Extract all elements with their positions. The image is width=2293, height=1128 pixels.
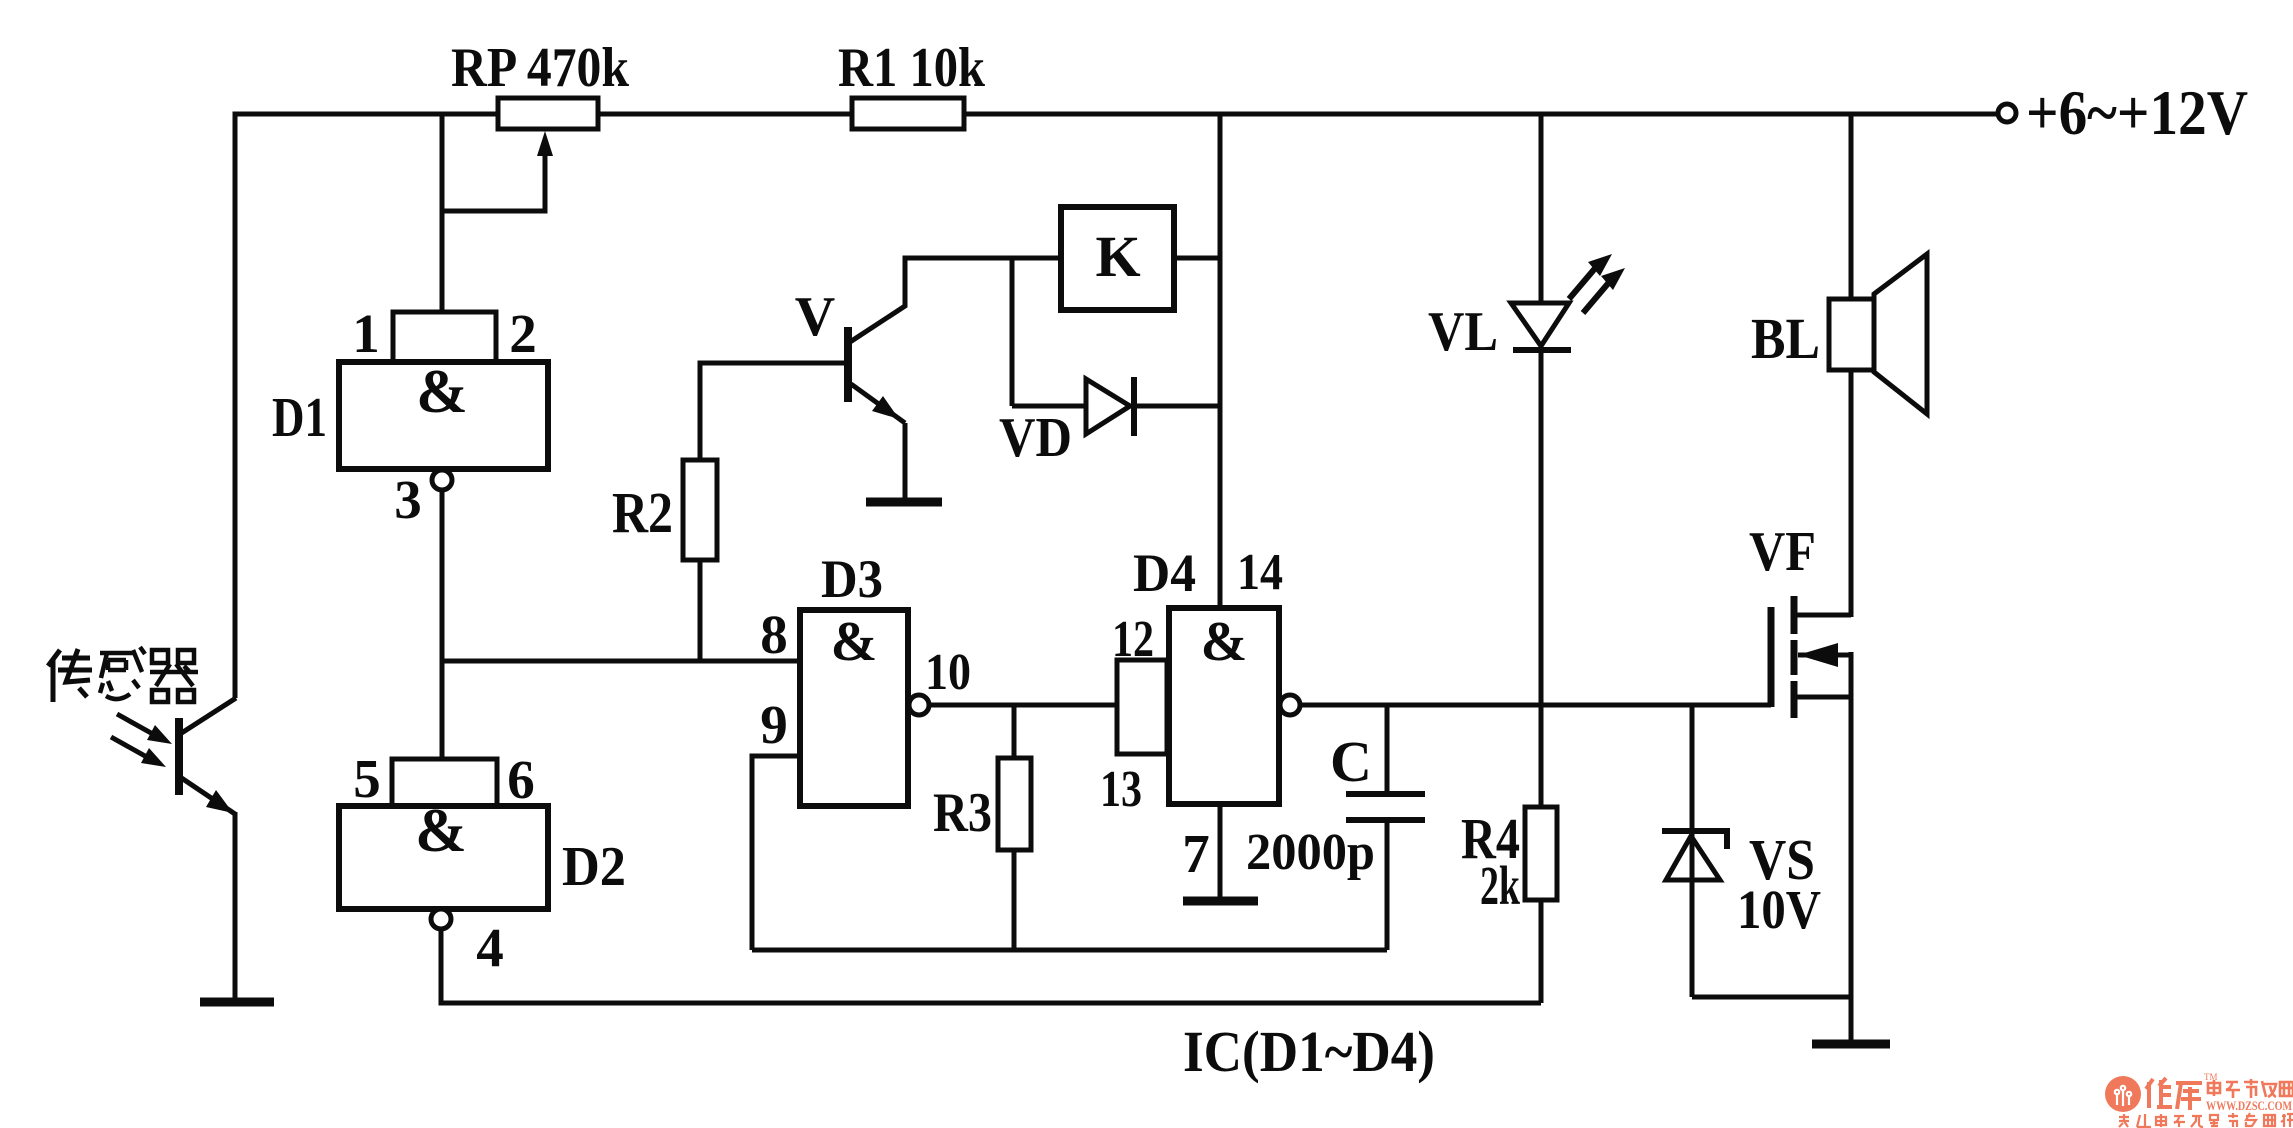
pin 10 of D3: [925, 644, 971, 701]
svg-text:10V: 10V: [1737, 879, 1821, 940]
ground of sensor emitter: [200, 998, 274, 1007]
zener diode VS cathode bar with hook: [1662, 831, 1727, 849]
WATERMARK: [2105, 1072, 2293, 1127]
svg-text:VL: VL: [1428, 301, 1498, 363]
wire capacitor C top lead: [1385, 705, 1390, 792]
label D3: [821, 549, 883, 609]
MOSFET VF source lead: [1797, 695, 1851, 700]
label D1: [272, 387, 327, 449]
wire VS branch from gate line: [1690, 705, 1695, 997]
label VF: [1749, 521, 1816, 583]
wire VD branch vertical: [1010, 258, 1015, 406]
pin 4 of D2: [476, 917, 504, 978]
pin 5 of D2: [353, 748, 381, 809]
svg-text:+6~+12V: +6~+12V: [2026, 77, 2248, 148]
LED VL cathode bar: [1513, 347, 1571, 353]
gate D2 output bubble (pin 4): [431, 909, 451, 929]
svg-text:7: 7: [1182, 823, 1210, 884]
wire RP branch drop to D1 inputs: [440, 114, 445, 315]
phototransistor sensor base bar: [175, 718, 183, 795]
svg-text:VD: VD: [999, 407, 1072, 469]
svg-text:D1: D1: [272, 387, 327, 449]
svg-text:&: &: [416, 358, 468, 426]
gate D4 input box (pins 12,13): [1117, 660, 1167, 754]
LED VL emission arrow 2: [1583, 268, 1625, 313]
watermark url WWW.DZSC.COM: [2206, 1098, 2292, 1113]
gate D4 body: [1169, 608, 1279, 804]
LED VL triangle: [1511, 303, 1569, 346]
transistor V emitter with arrow: [851, 384, 905, 423]
wire BL branch from rail down to VF drain: [1849, 114, 1854, 617]
wire D4 output to VF gate: [1300, 703, 1771, 708]
svg-text:R1 10k: R1 10k: [838, 37, 986, 99]
svg-text:10: 10: [925, 644, 971, 701]
wire VL branch from rail: [1539, 114, 1544, 303]
watermark TM: [2204, 1072, 2218, 1082]
wire D2 pin 4 bottom run to R4: [441, 929, 1541, 1003]
gate D3 output bubble (pin 10): [909, 695, 929, 715]
label R2: [612, 480, 673, 545]
gate D1 ampersand: [416, 358, 468, 426]
sensor label chinese 传 (drawn strokes): [48, 649, 92, 702]
svg-text:BL: BL: [1751, 306, 1820, 371]
gate D1 input box (pins 1,2): [393, 312, 496, 362]
MOSFET VF gate bar: [1768, 607, 1775, 707]
svg-text:13: 13: [1100, 761, 1142, 818]
svg-text:VF: VF: [1749, 521, 1816, 583]
sensor light arrow 1: [117, 714, 172, 744]
label VS: [1749, 827, 1815, 892]
watermark slogan 专业电子元器件交易网站 (drawn strokes): [2119, 1113, 2293, 1127]
resistor R1 body: [852, 98, 964, 129]
gate D4 output bubble: [1280, 695, 1300, 715]
power terminal circle +6~+12V: [1998, 104, 2016, 122]
pin 9 of D3: [760, 694, 788, 755]
wire VS bottom to VF source: [1692, 995, 1851, 1000]
capacitor C top plate: [1346, 791, 1425, 797]
pin 7 of D4: [1182, 823, 1210, 884]
svg-text:3: 3: [394, 469, 422, 530]
svg-text:2: 2: [509, 303, 537, 364]
svg-text:TM: TM: [2204, 1072, 2218, 1082]
pin 13 of D4: [1100, 761, 1142, 818]
gate D3 body: [800, 610, 908, 806]
LED VL emission arrow 1: [1569, 254, 1612, 299]
speaker BL horn: [1874, 254, 1927, 414]
phototransistor sensor emitter with arrow: [180, 777, 235, 814]
wire R2 bottom to node A rail: [698, 560, 703, 661]
wire VD anode lead: [1012, 404, 1086, 409]
ground of MOSFET VF: [1812, 1040, 1890, 1049]
svg-text:RP 470k: RP 470k: [451, 37, 630, 99]
svg-text:K: K: [1095, 224, 1140, 289]
svg-text:&: &: [1201, 611, 1248, 673]
gate D4 ampersand: [1201, 611, 1248, 673]
label V (transistor): [795, 286, 835, 348]
label K (relay): [1095, 224, 1140, 289]
svg-text:R2: R2: [612, 480, 673, 545]
watermark brand 维库 (drawn strokes): [2146, 1078, 2202, 1110]
label +6~+12V: [2026, 77, 2248, 148]
sensor label chinese 感 (drawn strokes): [100, 647, 145, 699]
svg-text:9: 9: [760, 694, 788, 755]
wire node A to D3 pin 8: [442, 659, 800, 664]
svg-text:WWW.DZSC.COM: WWW.DZSC.COM: [2206, 1098, 2292, 1113]
wire sensor emitter down to ground: [233, 812, 238, 1000]
wire R3 top lead: [1012, 705, 1017, 758]
wire R3 bottom lead: [1012, 850, 1017, 950]
gate D2 input box (pins 5,6): [392, 759, 497, 806]
wire main drop rail to D4 pin 14: [1218, 114, 1223, 608]
label R3: [933, 782, 992, 844]
watermark logo circle: [2105, 1076, 2141, 1112]
svg-text:IC(D1~D4): IC(D1~D4): [1183, 1019, 1435, 1084]
svg-text:C: C: [1330, 729, 1372, 794]
svg-text:V: V: [795, 286, 835, 348]
svg-text:2000p: 2000p: [1246, 824, 1375, 881]
wire D3 output pin 10 to D4 pin 12: [929, 703, 1117, 708]
gate D3 ampersand: [831, 611, 878, 673]
svg-text:14: 14: [1237, 544, 1283, 601]
diode VD cathode bar: [1131, 377, 1137, 436]
gate D1 body: [339, 362, 548, 469]
svg-text:6: 6: [507, 749, 535, 810]
label D4: [1133, 543, 1196, 603]
wire feedback bottom run to capacitor C: [752, 948, 1387, 953]
speaker BL box: [1829, 299, 1874, 370]
svg-text:2k: 2k: [1480, 855, 1520, 916]
diode VD triangle: [1086, 379, 1130, 434]
label R4: [1461, 806, 1520, 871]
phototransistor sensor collector: [180, 698, 236, 734]
pin 3 of D1: [394, 469, 422, 530]
label R1 10k: [838, 37, 986, 99]
resistor R2 body: [683, 460, 717, 560]
ground of D4 pin 7: [1183, 897, 1258, 906]
transistor V base bar: [844, 327, 852, 402]
ground of transistor V: [866, 498, 942, 507]
value 2000p: [1246, 824, 1375, 881]
MOSFET VF channel segments: [1791, 596, 1798, 718]
pin 6 of D2: [507, 749, 535, 810]
wire VD cathode to main drop: [1134, 404, 1220, 409]
pin 8 of D3: [760, 604, 788, 665]
gate D2 ampersand: [415, 797, 467, 865]
gate D2 body: [339, 806, 548, 909]
resistor R4 body: [1525, 807, 1557, 900]
svg-text:&: &: [831, 611, 878, 673]
svg-text:D3: D3: [821, 549, 883, 609]
wire D3 pin 9 feedback stub: [752, 756, 800, 950]
MOSFET VF body lead with arrow: [1798, 643, 1851, 667]
capacitor C bottom plate: [1346, 817, 1425, 823]
label C: [1330, 729, 1372, 794]
svg-text:8: 8: [760, 604, 788, 665]
svg-text:12: 12: [1112, 611, 1154, 668]
pin 1 of D1: [352, 303, 380, 364]
value 10V: [1737, 879, 1821, 940]
pin 14 of D4: [1237, 544, 1283, 601]
wire V collector up to relay K: [850, 258, 1061, 342]
wire D4 pin 7 to ground: [1218, 804, 1223, 899]
gate D1 output bubble (pin 3): [432, 470, 452, 490]
value 2k: [1480, 855, 1520, 916]
sensor light arrow 2: [111, 737, 166, 767]
wire VL cathode down through R4: [1539, 351, 1544, 807]
svg-text:4: 4: [476, 917, 504, 978]
wire V emitter down to ground: [903, 423, 908, 499]
wire R2 top to transistor V base: [700, 363, 845, 460]
zener diode VS triangle: [1666, 836, 1720, 880]
wire top +V rail and left rail: [235, 114, 1998, 698]
wire capacitor C bottom lead: [1385, 822, 1390, 950]
pin 12 of D4: [1112, 611, 1154, 668]
pin 2 of D1: [509, 303, 537, 364]
potentiometer RP wiper arrowhead: [537, 131, 553, 156]
label VD: [999, 407, 1072, 469]
label RP 470k: [451, 37, 630, 99]
relay K body: [1061, 207, 1174, 310]
svg-text:D2: D2: [562, 836, 626, 898]
wire K right side to main drop: [1174, 256, 1220, 261]
label BL: [1751, 306, 1820, 371]
potentiometer RP body: [498, 98, 598, 129]
wire VF source down to ground: [1849, 652, 1854, 1041]
label IC(D1~D4): [1183, 1019, 1435, 1084]
svg-text:5: 5: [353, 748, 381, 809]
svg-text:D4: D4: [1133, 543, 1196, 603]
wire R4 bottom lead: [1539, 900, 1544, 1003]
resistor R3 body: [998, 758, 1031, 850]
label VL: [1428, 301, 1498, 363]
MOSFET VF drain lead: [1797, 613, 1851, 618]
svg-text:&: &: [415, 797, 467, 865]
wire D1 output pin3 down to node A: [440, 491, 445, 762]
sensor label chinese 器 (drawn strokes): [150, 650, 198, 702]
svg-text:1: 1: [352, 303, 380, 364]
svg-text:R3: R3: [933, 782, 992, 844]
watermark text 电子市场网 (drawn strokes): [2208, 1079, 2293, 1098]
label D2: [562, 836, 626, 898]
wire RP wiper link: [442, 148, 545, 211]
